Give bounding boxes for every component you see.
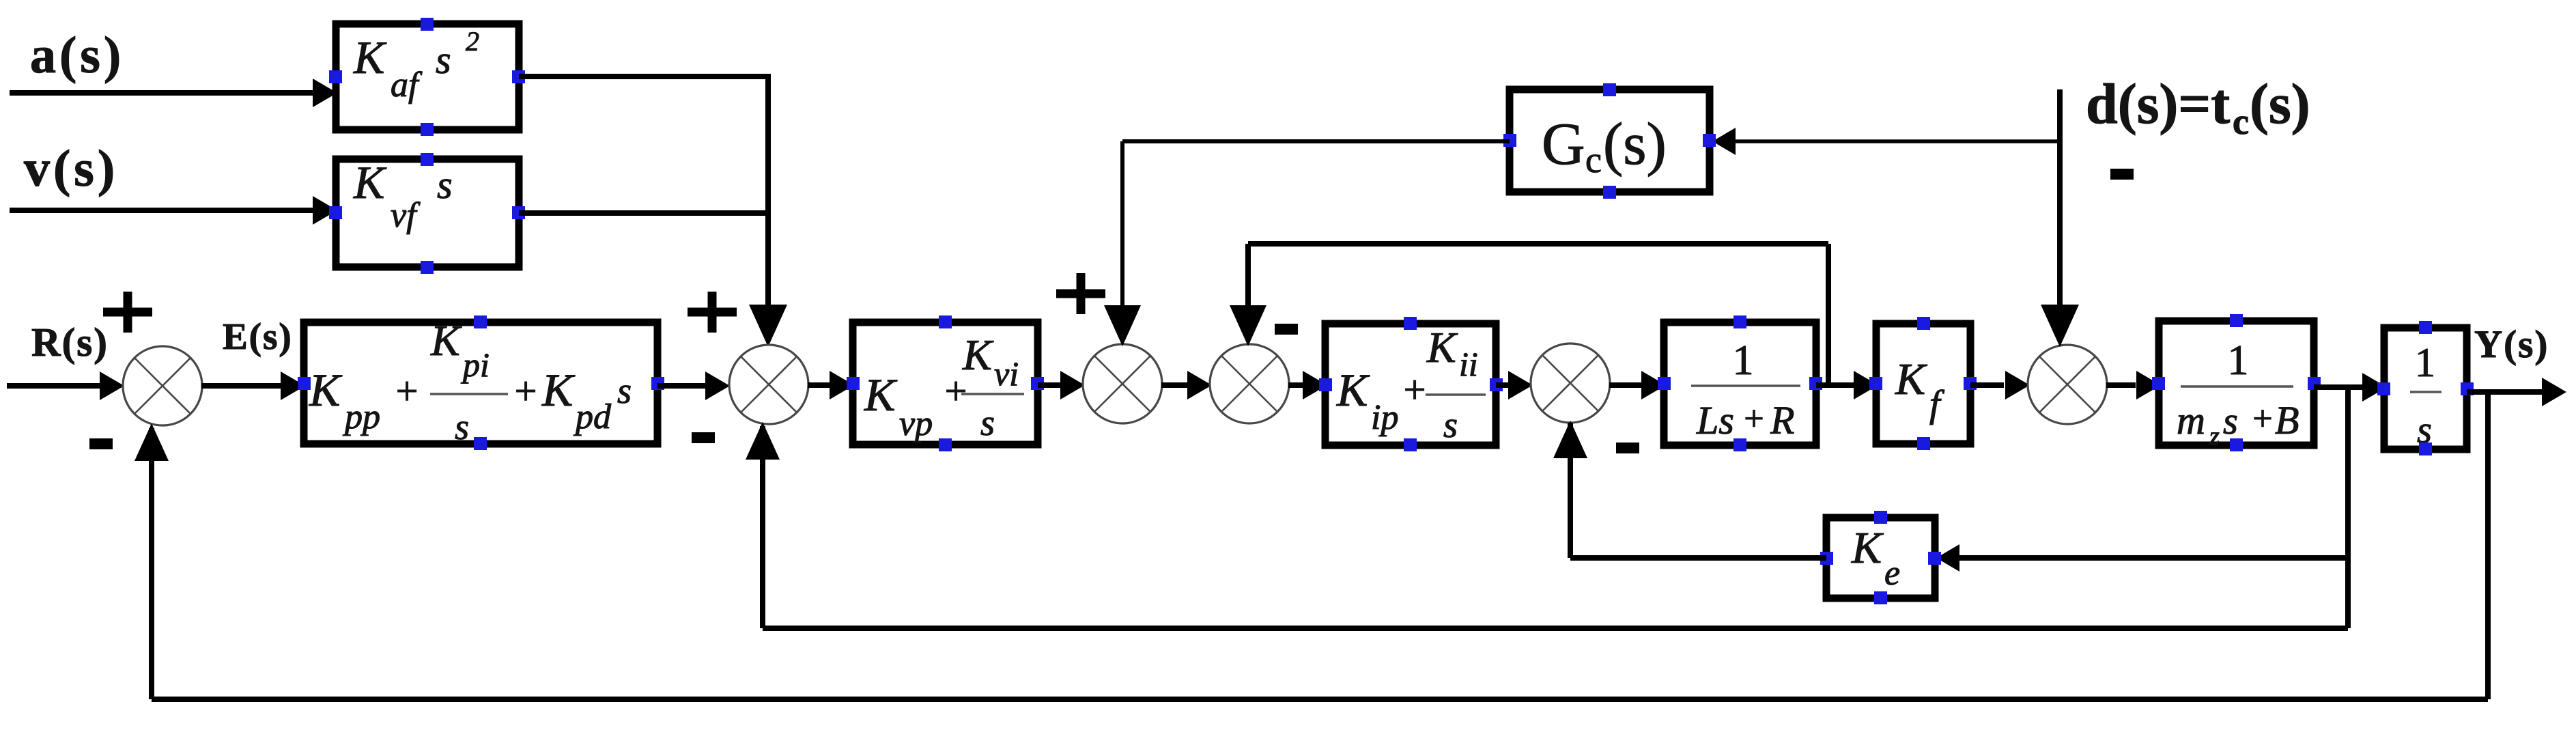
summer 2: [729, 345, 808, 424]
wire K_e to summer5: [1570, 555, 1826, 561]
wire Gc to summer3: [1122, 139, 1510, 143]
wire to K_e: [1958, 555, 2348, 561]
ports Kvp box: [939, 315, 952, 328]
svg-text:G: G: [1542, 111, 1585, 178]
svg-text:K: K: [353, 31, 387, 83]
wire d(s) to Gc: [1734, 139, 2060, 143]
svg-text:K: K: [1336, 364, 1370, 416]
svg-text:+: +: [2250, 399, 2274, 438]
svg-text:Y(s): Y(s): [2474, 323, 2549, 366]
sign minus at summer2: [692, 432, 715, 443]
wire K_vf output: [519, 210, 768, 216]
svg-text:a(s): a(s): [30, 27, 124, 84]
svg-text:K: K: [1895, 354, 1927, 404]
svg-text:E(s): E(s): [223, 315, 293, 357]
block K_af*s^2: [336, 24, 519, 130]
wire motor to 1/s: [2314, 384, 2364, 390]
ports K_e box: [1874, 511, 1887, 524]
wire a(s) input: [10, 90, 314, 96]
ports Gc box: [1603, 83, 1616, 96]
block Kip+Kii/s: [1325, 324, 1496, 445]
svg-text:ip: ip: [1371, 398, 1398, 437]
svg-text:R(s): R(s): [31, 320, 109, 365]
ports Kip box: [1404, 317, 1417, 330]
svg-text:ii: ii: [1459, 345, 1478, 383]
wire v(s) input: [10, 208, 314, 213]
block Kvp+Kvi/s: [853, 322, 1038, 445]
svg-text:1: 1: [2415, 340, 2435, 385]
svg-text:+: +: [1742, 399, 1766, 438]
svg-text:R: R: [1770, 398, 1794, 443]
wire speed tap down: [2345, 387, 2351, 628]
svg-text:K: K: [353, 156, 387, 208]
svg-text:z: z: [2209, 422, 2220, 451]
svg-text:K: K: [1426, 323, 1458, 371]
summer 6: [2028, 345, 2107, 424]
svg-text:s: s: [436, 38, 451, 82]
block Kpp+Kpi/s+Kpd*s: [304, 322, 657, 444]
svg-text:1: 1: [1733, 337, 1754, 384]
svg-text:s: s: [2223, 400, 2238, 443]
sign minus at summer4: [1275, 324, 1298, 335]
svg-text:af: af: [391, 66, 423, 104]
ports motor box: [2230, 314, 2243, 327]
svg-text:s: s: [437, 163, 453, 207]
ports K_af: [421, 18, 434, 31]
block 1/(Ls+R): [1664, 322, 1816, 445]
sign plus at summer1: [103, 308, 152, 317]
wire Kvp to summer3: [1038, 382, 1062, 388]
svg-text:K: K: [962, 331, 994, 379]
svg-text:v(s): v(s): [24, 140, 118, 197]
svg-text:vf: vf: [391, 196, 421, 235]
svg-text:K: K: [430, 316, 462, 365]
svg-text:vp: vp: [899, 404, 933, 443]
summer 5: [1531, 343, 1610, 423]
svg-text:s: s: [980, 402, 995, 443]
svg-text:+: +: [512, 369, 539, 413]
block K_vf*s: [336, 159, 519, 267]
block 1/s: [2384, 328, 2467, 449]
svg-text:c: c: [1585, 139, 1602, 180]
svg-text:d(s)=t: d(s)=t: [2086, 72, 2230, 136]
wire R(s) input: [7, 383, 102, 389]
block Kf: [1876, 324, 1970, 444]
svg-text:s: s: [455, 406, 469, 447]
svg-text:1: 1: [2228, 337, 2249, 384]
wire d(s) vertical: [2057, 89, 2063, 308]
svg-text:+: +: [1401, 367, 1428, 412]
wire feedforward merge: [765, 76, 771, 311]
block K_e: [1826, 518, 1935, 598]
wire position tap down: [2485, 392, 2491, 699]
svg-text:c: c: [2233, 101, 2249, 142]
svg-text:e: e: [1884, 554, 1900, 593]
summer 1: [123, 346, 202, 425]
wire PID to summer2: [657, 383, 707, 389]
wire summer4 to Kip: [1288, 382, 1304, 388]
svg-text:B: B: [2275, 398, 2299, 443]
wire summer5 to LsR: [1609, 382, 1642, 388]
wire summer3 to summer4: [1161, 382, 1189, 388]
svg-text:K: K: [1851, 523, 1884, 573]
ports 1/s box: [2419, 321, 2432, 334]
wire E(s): [201, 383, 283, 389]
block 1/(mzs+B): [2159, 321, 2314, 445]
svg-text:m: m: [2177, 398, 2205, 443]
svg-text:pi: pi: [461, 346, 490, 384]
wire summer6 to motor: [2106, 382, 2136, 388]
ports LsR box: [1733, 315, 1746, 328]
sign plus at summer2: [688, 308, 737, 317]
summer 3: [1083, 344, 1162, 423]
summer 4: [1210, 344, 1289, 423]
wire Kip to summer5: [1496, 382, 1509, 388]
svg-text:(s): (s): [1603, 111, 1667, 178]
wire summer2 to Kvp: [808, 382, 830, 388]
svg-text:2: 2: [466, 26, 479, 57]
svg-text:K: K: [541, 364, 576, 416]
ports Kf box: [1917, 317, 1930, 330]
ports K_vf: [421, 153, 434, 166]
svg-text:(s): (s): [2250, 72, 2310, 136]
wire velocity feedback: [763, 626, 2348, 631]
svg-text:pp: pp: [342, 397, 380, 436]
sign plus at summer3: [1056, 290, 1105, 298]
wire output Y(s): [2467, 389, 2543, 395]
wire Kf to summer6: [1970, 382, 2004, 388]
svg-text:vi: vi: [994, 354, 1019, 393]
wire current feedback: [1826, 244, 1831, 385]
svg-text:s: s: [1443, 404, 1458, 445]
svg-text:K: K: [864, 369, 898, 421]
block Gc(s): [1510, 89, 1710, 192]
svg-text:K: K: [309, 364, 343, 416]
sign minus at d(s): [2110, 169, 2134, 180]
svg-text:+: +: [393, 369, 420, 413]
sign minus at summer5: [1616, 443, 1639, 453]
wire K_af output: [519, 74, 771, 79]
svg-text:Ls: Ls: [1696, 398, 1734, 443]
svg-text:s: s: [617, 370, 632, 411]
sign minus at summer1: [89, 438, 113, 449]
wire position feedback: [152, 697, 2488, 702]
ports PID box: [474, 315, 487, 328]
svg-text:pd: pd: [573, 397, 612, 436]
wire LsR to Kf: [1816, 382, 1854, 388]
